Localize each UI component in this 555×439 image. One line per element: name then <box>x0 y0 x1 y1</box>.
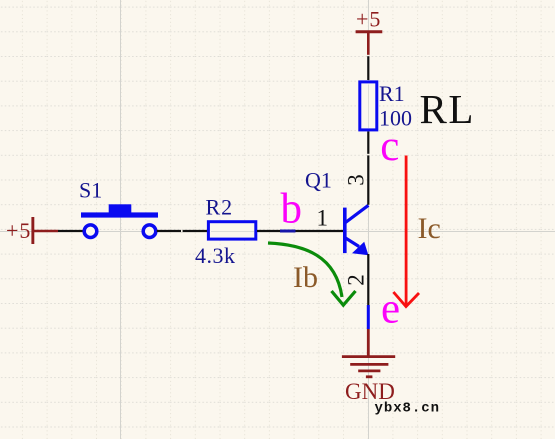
wire <box>367 56 369 80</box>
ground GND <box>342 329 395 404</box>
svg-text:1: 1 <box>317 206 329 231</box>
svg-text:2: 2 <box>344 274 369 286</box>
wire (blue segment) <box>280 230 296 233</box>
svg-text:ybx8.cn: ybx8.cn <box>375 401 440 417</box>
transistor Q1 <box>305 168 368 256</box>
svg-text:R2: R2 <box>206 195 234 220</box>
svg-text:Ic: Ic <box>418 212 441 245</box>
svg-text:Q1: Q1 <box>305 168 332 193</box>
svg-text:+5: +5 <box>6 218 31 243</box>
svg-text:+5: +5 <box>356 7 381 32</box>
wire <box>157 230 207 232</box>
svg-text:R1: R1 <box>379 81 405 106</box>
svg-text:RL: RL <box>420 86 475 132</box>
power +5 (left) <box>6 217 58 244</box>
wire <box>257 230 343 232</box>
wire <box>367 132 369 205</box>
resistor R1 <box>360 81 405 130</box>
wire <box>58 230 84 232</box>
svg-text:S1: S1 <box>79 178 102 203</box>
svg-text:b: b <box>281 186 303 233</box>
svg-text:4.3k: 4.3k <box>195 243 236 268</box>
wire (blue segment) <box>367 305 370 329</box>
current arrow Ic <box>393 156 419 307</box>
resistor R2 <box>206 195 256 240</box>
svg-text:3: 3 <box>344 174 369 186</box>
power +5 (top) <box>356 7 383 57</box>
svg-text:e: e <box>381 286 400 333</box>
current arrow Ib <box>268 243 356 305</box>
switch S1 <box>79 178 158 238</box>
svg-text:c: c <box>380 123 399 170</box>
wire <box>367 254 369 305</box>
svg-text:Ib: Ib <box>293 261 318 294</box>
